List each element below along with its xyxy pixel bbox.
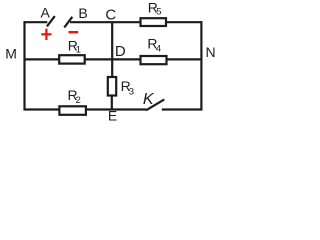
- resistor R4 value label: [147, 35, 161, 54]
- svg-text:2: 2: [76, 95, 81, 106]
- terminal contact slash B: [64, 17, 72, 28]
- svg-text:A: A: [41, 5, 51, 21]
- svg-text:5: 5: [156, 7, 161, 18]
- wire bottom rail left segment to R2: [24, 108, 60, 110]
- battery polarity plus (red): [41, 29, 51, 40]
- wire bottom rail R2 to switch: [86, 108, 146, 110]
- svg-text:4: 4: [156, 43, 161, 54]
- battery polarity minus (red): [69, 31, 79, 33]
- resistor R4: [141, 56, 167, 64]
- switch K blade: [146, 99, 164, 110]
- wire middle rail R4 to N: [167, 58, 203, 60]
- resistor R1 value label: [68, 37, 81, 55]
- wire top rail B to R5: [70, 21, 140, 23]
- resistor R2 value label: [68, 87, 81, 106]
- wire left vertical M branch: [23, 21, 25, 110]
- svg-text:3: 3: [129, 87, 134, 98]
- svg-text:D: D: [115, 43, 126, 60]
- wire top rail R5 to right corner: [167, 21, 203, 23]
- wire R3 bottom to E: [111, 96, 113, 111]
- resistor R1: [59, 55, 84, 63]
- svg-text:1: 1: [76, 45, 81, 56]
- resistor R3 value label: [121, 78, 134, 98]
- wire middle rail M to R1: [24, 58, 60, 60]
- wire middle rail R1 to R4: [85, 58, 141, 60]
- terminal contact slash A: [47, 16, 55, 26]
- wire right vertical N branch: [200, 21, 202, 110]
- svg-text:C: C: [105, 7, 116, 24]
- svg-text:B: B: [78, 5, 87, 21]
- resistor R2: [59, 106, 86, 115]
- resistor R3 (vertical): [108, 77, 116, 96]
- resistor R5 value label: [148, 0, 162, 18]
- resistor R5: [141, 18, 167, 26]
- wire top rail left segment to A: [24, 21, 48, 23]
- wire bottom rail switch to right corner: [162, 108, 203, 110]
- wire C to D vertical: [111, 22, 113, 76]
- svg-text:M: M: [5, 46, 17, 62]
- svg-text:N: N: [205, 44, 215, 60]
